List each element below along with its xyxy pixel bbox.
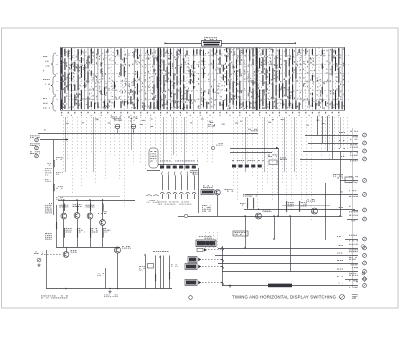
right top connector group xyxy=(300,131,366,161)
left wafer brackets xyxy=(51,53,56,111)
sweep output amplifier cluster xyxy=(240,152,355,240)
switch wafer pin numbers row xyxy=(61,112,339,127)
switch title label above box xyxy=(204,36,206,39)
delay pickoff contact bus xyxy=(147,148,198,199)
center bottom circled plus xyxy=(189,296,193,300)
extra diamond connector xyxy=(361,244,365,248)
contact arcs under bus xyxy=(146,195,159,196)
left wafer tiny labels xyxy=(43,56,50,108)
bottom left connector J xyxy=(34,252,62,267)
switch block section row lines xyxy=(56,56,349,100)
sweep-select contact row xyxy=(230,147,287,216)
svg-text:TIMING AND HORIZONTAL DISPLAY: TIMING AND HORIZONTAL DISPLAY SWITCHING xyxy=(232,295,336,300)
signal routing labels with arrows xyxy=(185,236,222,285)
svg-text:SWITCH SHOWN IN 2mSEC POSITION: SWITCH SHOWN IN 2mSEC POSITION xyxy=(225,47,271,51)
left circuit boundary wire xyxy=(46,250,48,289)
holdoff amplifier cluster xyxy=(178,168,340,218)
right mid connector group xyxy=(245,174,366,221)
bottom right connector group xyxy=(215,216,367,288)
dlyd trig bracket labels xyxy=(45,167,46,170)
lower-left timing transistor cluster xyxy=(45,197,172,298)
auxiliary box above bus xyxy=(233,231,248,236)
switch title box SW460 TIME/DIV xyxy=(165,41,297,47)
bottom mid components xyxy=(97,251,178,289)
right top vertical feeds xyxy=(318,116,333,159)
title rev mark xyxy=(352,294,358,299)
extra connector small xyxy=(362,272,365,275)
title circled symbol xyxy=(340,295,345,300)
trimmer capacitor C440 xyxy=(128,117,138,134)
switch wafer divider lines xyxy=(60,48,345,111)
bottom left footnote xyxy=(41,295,43,298)
bottom distribution bus xyxy=(222,246,224,286)
wire from left connectors xyxy=(40,139,68,141)
junction dots xyxy=(65,209,341,290)
neon lamp under block xyxy=(211,146,214,149)
left rail components xyxy=(45,157,63,200)
wire 245 vertical link xyxy=(245,216,247,248)
sel wire long xyxy=(38,133,258,135)
trimmer capacitor C430 xyxy=(111,117,122,134)
left rail wire xyxy=(53,140,55,215)
bottom dashed drops xyxy=(206,232,218,248)
left edge input connectors xyxy=(30,135,40,157)
rotary switch SW460 wafer contact columns xyxy=(61,48,344,111)
wire 274 vertical link xyxy=(274,216,276,239)
right vertical rail xyxy=(352,128,354,288)
switch wiring dashed drop lines xyxy=(64,117,348,222)
center vertical resistors xyxy=(243,194,257,209)
bottom ground mid xyxy=(229,284,231,286)
